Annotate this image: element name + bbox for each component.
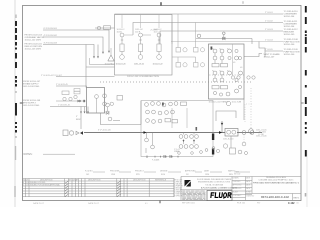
- svg-text:2"-S-1011-44 TO E-107: 2"-S-1011-44 TO E-107: [41, 75, 63, 77]
- hatch marks col 2: [117, 181, 120, 196]
- company logo square: [185, 180, 191, 187]
- left light binding marks: [15, 15, 16, 198]
- sig line 7: [236, 171, 250, 173]
- svg-text:BFW: BFW: [76, 119, 81, 121]
- small stems inside box C: [214, 53, 216, 56]
- svg-text:4 NOZZLE: 4 NOZZLE: [175, 188, 182, 190]
- bubble on pipe 2: [250, 131, 254, 135]
- svg-text:PROJECT: PROJECT: [135, 171, 145, 173]
- wire branch x98: [97, 45, 99, 57]
- svg-text:1011-LV-20: 1011-LV-20: [116, 63, 127, 65]
- PSV stem: [110, 48, 112, 55]
- lower instrument bubble A6: [157, 55, 162, 60]
- svg-text:1011-LV-22: 1011-LV-22: [153, 63, 164, 65]
- extra bubbles box C: [235, 49, 238, 52]
- dark mark in box D: [162, 103, 164, 106]
- arrowhead line3b: [97, 56, 99, 58]
- svg-text:DRAIN: DRAIN: [174, 150, 180, 153]
- arrow group1: [183, 140, 185, 142]
- arrowhead line2: [102, 52, 104, 54]
- svg-text:6"-P-1011-120: 6"-P-1011-120: [98, 130, 112, 132]
- svg-text:102 A: 102 A: [117, 30, 123, 33]
- disclaimer paragraph: [182, 191, 205, 200]
- svg-text:REV 1: REV 1: [294, 197, 301, 199]
- transmitter pair row1 right: square: [194, 48, 199, 53]
- instrument bubble A1: [120, 33, 124, 37]
- svg-text:1011-LG-45: 1011-LG-45: [256, 130, 267, 132]
- drawing title: [253, 177, 300, 185]
- small bubble left end of y38: [197, 34, 200, 37]
- bubble C21: [213, 71, 217, 75]
- arrowhead 2: [84, 112, 86, 114]
- drop from y44.5 down x86: [85, 45, 87, 88]
- signal line y14: [115, 13, 284, 15]
- bubble C22: [220, 71, 224, 75]
- noise cell border: [173, 179, 175, 197]
- transmitter pair row2 left: bubble: [183, 63, 187, 67]
- cluster bubble 2: [69, 97, 72, 100]
- marks on box D bottom edge: [147, 156, 178, 159]
- bubble row near box C top-right: [231, 76, 255, 79]
- left feed into box D: [101, 101, 142, 125]
- title block top line: [181, 176, 301, 178]
- hanging group 2: [190, 135, 194, 139]
- svg-text:NO 102: NO 102: [234, 174, 240, 176]
- bubble C24: [213, 78, 217, 82]
- long vertical x243.5: [243, 99, 245, 120]
- right center fold tick: [301, 102, 304, 104]
- lower instrument bubble A5: [138, 55, 143, 60]
- svg-text:PROCESS: PROCESS: [110, 171, 120, 173]
- row lines: [23, 183, 175, 185]
- stems to signal lines: [177, 14, 179, 48]
- svg-text:1994: 1994: [205, 174, 209, 176]
- sig line 2: [119, 171, 131, 173]
- cluster dark dot: [79, 100, 81, 102]
- svg-text:1011-D-104: 1011-D-104: [284, 16, 296, 18]
- svg-text:2"-V-103: 2"-V-103: [265, 29, 274, 31]
- valve bowtie: [76, 131, 79, 134]
- svg-text:DESCRIPTION: DESCRIPTION: [88, 180, 101, 182]
- valve L: [106, 111, 109, 114]
- svg-text:102 C: 102 C: [154, 31, 160, 33]
- top center fold tick: [160, 2, 162, 5]
- instrument w/ dotted leads: [249, 129, 254, 134]
- sig line 5: [195, 171, 202, 173]
- svg-text:102 B: 102 B: [135, 31, 141, 33]
- signal line y22.5: [133, 23, 283, 36]
- svg-text:1 PIPE SP: 1 PIPE SP: [175, 182, 182, 184]
- svg-text:1011-C-102 COLUMN SECTION: 1011-C-102 COLUMN SECTION: [127, 76, 159, 78]
- sig line 1: [93, 171, 105, 173]
- svg-text:1011-D-109 DWG: 1011-D-109 DWG: [23, 105, 40, 107]
- bubble L4: [108, 117, 112, 121]
- bottom center fold tick: [159, 201, 161, 204]
- svg-text:DESIGN: DESIGN: [160, 171, 168, 173]
- svg-text:APPROVED: APPROVED: [185, 170, 196, 173]
- narrow noise cell: [175, 180, 184, 198]
- dark tick on y101: [84, 100, 85, 102]
- dotted row inside box C: [210, 74, 244, 76]
- main pipe right segment: [237, 132, 262, 134]
- hanging group 1: [179, 135, 183, 139]
- actuator stem: [223, 35, 225, 38]
- svg-text:DATE PLOT: DATE PLOT: [88, 202, 100, 205]
- bubble C34: [226, 92, 230, 96]
- table header texts: [23, 179, 167, 182]
- svg-text:NONE: NONE: [246, 192, 251, 194]
- svg-text:KLM: KLM: [161, 174, 165, 176]
- svg-text:1.95: 1.95: [26, 185, 30, 187]
- wire y107: [50, 106, 87, 108]
- bubble E3: [103, 102, 107, 106]
- svg-text:RUNNING PROCESS: RUNNING PROCESS: [266, 177, 286, 179]
- svg-text:1011-LV-21: 1011-LV-21: [134, 63, 145, 65]
- svg-text:1011-D-108 DWG: 1011-D-108 DWG: [23, 86, 40, 88]
- float chamber rect col3: [157, 44, 161, 52]
- arrowhead 1: [80, 112, 82, 114]
- revision table outline: [23, 179, 175, 197]
- svg-text:1011-D-106: 1011-D-106: [284, 44, 296, 46]
- notes underline: [43, 153, 75, 155]
- bubble E2: [103, 94, 107, 98]
- sig line 3: [144, 171, 156, 173]
- arrow on riser: [221, 123, 223, 126]
- instrument bubble A3: [157, 33, 161, 37]
- small marks: [107, 107, 109, 111]
- riser into main line: [221, 121, 223, 133]
- stems: [146, 133, 148, 138]
- cluster bubble 1: [63, 97, 66, 100]
- transmitter pair row2 right: bubble: [200, 63, 204, 67]
- svg-text:1011-D-105: 1011-D-105: [284, 34, 296, 36]
- svg-text:1: 1: [23, 185, 24, 187]
- svg-text:102: 102: [86, 174, 89, 176]
- signal line y31: [160, 31, 283, 44]
- FLUOR wordmark: [211, 193, 231, 198]
- sig line 4: [168, 171, 181, 173]
- svg-text:2"-V-104: 2"-V-104: [265, 40, 274, 42]
- control valve on y38: [223, 37, 226, 40]
- bubble C15: [220, 56, 224, 60]
- svg-text:1011-D-104: 1011-D-104: [284, 26, 296, 28]
- header separator: [23, 180, 175, 182]
- main pipe: [84, 132, 225, 134]
- left binding marks: [15, 21, 17, 133]
- riser x81 down: [80, 112, 82, 129]
- instrument bubble A2: [139, 33, 143, 37]
- svg-text:DATE PLOT: DATE PLOT: [33, 202, 45, 205]
- FLUOR logo box: [207, 191, 232, 201]
- svg-text:CHECKED: CHECKED: [233, 181, 242, 183]
- top right fold tick: [242, 1, 244, 4]
- box C interior specks: [212, 49, 243, 73]
- svg-text:P-104A/B: P-104A/B: [152, 158, 160, 161]
- svg-text:DWG NO: DWG NO: [247, 195, 255, 197]
- bubble above equipment: [226, 101, 230, 105]
- fields grid: [232, 177, 252, 201]
- title block left border: [180, 177, 182, 201]
- exchanger inner circle: [227, 130, 231, 134]
- address lines: [197, 178, 232, 186]
- bubble C33: [235, 89, 239, 93]
- svg-text:1011-D-106: 1011-D-106: [284, 54, 296, 56]
- arrow group2: [193, 140, 195, 142]
- dotted drop from bubble 244: [243, 135, 245, 143]
- relief valve PSV triangle: [108, 55, 114, 61]
- bottom small marks: [178, 152, 181, 155]
- utility line y86: [56, 86, 87, 88]
- signal line y41.5 (dashed): [171, 41, 283, 43]
- bubble C31: [235, 56, 239, 60]
- drawing border frame: [23, 6, 302, 201]
- svg-text:1011-UC-102 PANEL: 1011-UC-102 PANEL: [209, 101, 229, 104]
- svg-text:ENGINEERS AND CONSTRUCTORS: ENGINEERS AND CONSTRUCTORS: [198, 181, 231, 184]
- transmitter pair row1 left: square: [176, 48, 181, 53]
- svg-text:8474-220-100-C-102: 8474-220-100-C-102: [261, 195, 289, 199]
- sub-box corner near PSV: [90, 58, 115, 65]
- dotted box right: [245, 104, 252, 122]
- row3 tags: [165, 119, 171, 122]
- row1 tag: [181, 102, 187, 105]
- below-line bubbles left: [145, 138, 149, 142]
- svg-text:2"-V-102: 2"-V-102: [265, 21, 274, 23]
- svg-text:REF DWG 1011: REF DWG 1011: [182, 203, 195, 205]
- arrowhead line1: [108, 51, 110, 53]
- left trim line: [14, 0, 16, 207]
- bubble C25: [220, 78, 224, 82]
- svg-text:COLUMN 1011-C102 PUMP NO. 104: COLUMN 1011-C102 PUMP NO. 104 1: [259, 180, 295, 182]
- svg-text:1011-D-102 DWG: 1011-D-102 DWG: [25, 40, 42, 42]
- small valves on bottom edge: [164, 155, 172, 157]
- bubble C12: [220, 49, 224, 53]
- utility line y76.5: [56, 76, 115, 78]
- tag row C1: [212, 64, 219, 67]
- hatch marks col 1: [65, 181, 68, 196]
- left center fold tick: [20, 102, 23, 104]
- svg-text:01: 01: [297, 203, 299, 205]
- row2 bubbles: [146, 110, 150, 114]
- bubble C32: [239, 71, 243, 75]
- bubble below pipe: [242, 142, 246, 146]
- svg-text:REFERENCE: REFERENCE: [155, 180, 167, 182]
- upper-left small instruments: [106, 96, 123, 121]
- bowtie valve on y101: [78, 100, 80, 102]
- riser from box C to y41.5: [259, 42, 265, 52]
- pump cluster: [63, 130, 79, 136]
- flow arrow on main pipe: [144, 131, 147, 134]
- arrowhead line3a: [93, 56, 95, 58]
- svg-text:1011-TI-88: 1011-TI-88: [232, 102, 243, 104]
- tag row C2: [212, 86, 219, 89]
- tag boxes above cluster: [74, 89, 80, 92]
- svg-text:P+ID NO.: P+ID NO.: [85, 171, 94, 173]
- small instrument + tag left of box A: [95, 26, 115, 30]
- wire line2: [43, 37, 103, 52]
- svg-text:TULSA, OKLAHOMA: TULSA, OKLAHOMA: [205, 183, 224, 186]
- vessel box A: [115, 15, 173, 76]
- revision entries: [23, 182, 60, 187]
- svg-text:FILE 102: FILE 102: [237, 203, 246, 205]
- svg-text:4.1: 4.1: [145, 203, 148, 205]
- bubble E4: [110, 102, 113, 105]
- svg-text:RTD: RTD: [136, 174, 140, 176]
- dark mark in box D 2: [196, 127, 198, 131]
- right light binding mark: [305, 193, 307, 197]
- transmitter pair row1 right: bubble: [200, 48, 204, 52]
- transmitter pair row2 right: square: [194, 63, 199, 68]
- exchanger body: [225, 129, 238, 137]
- panel box C: [209, 44, 245, 99]
- row3 bubbles: [146, 119, 150, 123]
- rev cell divider: [292, 194, 294, 201]
- svg-text:DESCRIPTION: DESCRIPTION: [133, 180, 146, 182]
- svg-text:1011-D-107: 1011-D-107: [264, 56, 276, 58]
- right trim line: [306, 150, 308, 207]
- bubble E1: [95, 95, 99, 99]
- wire line3: [43, 45, 94, 57]
- dark valve at box D right edge upper: [212, 134, 214, 141]
- bubble C23: [228, 71, 232, 75]
- left riser x172: [171, 22, 173, 44]
- arrowhead 3: [87, 112, 89, 114]
- svg-text:1011-D-103 DWG: 1011-D-103 DWG: [25, 49, 42, 51]
- svg-text:3": 3": [76, 116, 78, 118]
- pump circle: [69, 131, 73, 135]
- svg-text:2"-V-101: 2"-V-101: [265, 12, 274, 14]
- svg-text:3 PUMP TR: 3 PUMP TR: [175, 186, 184, 188]
- transmitter pair row1 left: bubble: [183, 48, 187, 52]
- stems E: [96, 98, 98, 113]
- cluster bubble 3: [74, 95, 77, 98]
- dotted riser x251: [250, 88, 252, 128]
- connector lines at y35: [124, 34, 133, 36]
- signal line y51: [265, 51, 283, 57]
- signal line y56 from box C: [244, 54, 262, 57]
- wire y38: [196, 38, 252, 40]
- logo cell divider: [181, 189, 232, 191]
- vertical feed at x146 above box: [145, 148, 147, 153]
- dark valve at box D right edge lower: [212, 149, 214, 155]
- stems from box top: [121, 15, 123, 29]
- strainer box: [63, 130, 68, 136]
- drop into box C: [251, 39, 253, 45]
- svg-text:2"-V-105: 2"-V-105: [265, 49, 274, 51]
- utility line y101: [56, 100, 87, 102]
- flow arrow 2 on main pipe: [219, 131, 222, 134]
- box E: [87, 88, 105, 114]
- float chamber rect col2: [138, 44, 142, 52]
- boundary box D dashed: [141, 101, 213, 157]
- drop arrows x81 x84.5 x88: [80, 107, 82, 113]
- svg-text:DATE: DATE: [204, 170, 210, 173]
- svg-text:1011-LG-46: 1011-LG-46: [256, 136, 267, 138]
- match line dotted y84: [100, 81, 251, 83]
- bubble C13: [228, 49, 232, 53]
- left cluster tag: [62, 91, 69, 95]
- svg-text:C-102: C-102: [288, 202, 295, 205]
- sig line 6: [210, 171, 222, 173]
- float chamber rect col1: [120, 44, 124, 52]
- inverted U line: [216, 111, 236, 121]
- wire line1 top-left: [43, 30, 109, 51]
- end label: [259, 132, 267, 136]
- tag box L: [117, 96, 123, 101]
- utility line y67: [86, 66, 115, 68]
- svg-text:NOTES:: NOTES:: [24, 153, 33, 156]
- svg-text:2"-W-1011-61: 2"-W-1011-61: [58, 105, 71, 107]
- svg-text:PIPING AND INSTRUMENTATION DIA: PIPING AND INSTRUMENTATION DIAGRAM NO 2: [253, 182, 300, 185]
- lower instrument bubble A4: [120, 55, 125, 60]
- svg-text:ISSUED FOR DESIGN APPROVAL: ISSUED FOR DESIGN APPROVAL: [30, 184, 60, 187]
- svg-text:2"-S-1011-45: 2"-S-1011-45: [56, 84, 69, 86]
- svg-text:1011-E-120: 1011-E-120: [223, 138, 234, 140]
- bubble C14: [213, 56, 217, 60]
- control valve solid: [80, 131, 83, 134]
- stamp text above fields: [234, 172, 240, 176]
- below equipment instruments: [212, 136, 247, 155]
- gauge verticals in box D: [171, 108, 173, 128]
- bubble on pipe 1: [242, 131, 246, 135]
- dark mark box C top-left: [211, 47, 213, 50]
- column lines: [25, 179, 27, 197]
- row1 bubbles: [145, 103, 149, 107]
- box D inner instruments: [145, 102, 208, 155]
- transmitter pair row2 left: square: [176, 63, 181, 68]
- bubble C11: [213, 49, 217, 53]
- number row separator: [246, 193, 302, 195]
- bubble L3: [106, 103, 110, 107]
- right binding marks: [305, 6, 307, 157]
- small text cluster right-low: [174, 149, 180, 153]
- internal divider box C: [232, 44, 234, 75]
- small marks y40: [121, 37, 123, 44]
